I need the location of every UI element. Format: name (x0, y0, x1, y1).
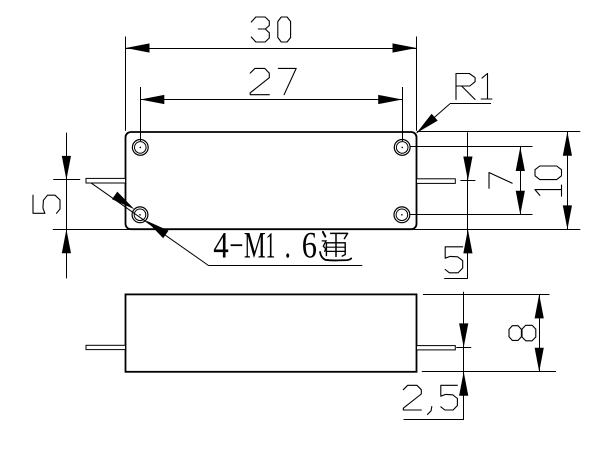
svg-text:6: 6 (302, 226, 317, 267)
label tong (CJK through) glyph (320, 232, 351, 261)
dim 10 text (535, 166, 562, 196)
dim 8 line and arrows (535, 294, 544, 371)
label 4-M1.6 text (213, 226, 317, 267)
dim 27 text (250, 68, 296, 94)
right lead (top view) (417, 179, 456, 184)
left lead (top view) (86, 178, 126, 183)
hole top-left (132, 140, 148, 156)
dim 5 right text (445, 247, 463, 273)
top view body outline (126, 132, 417, 229)
dim 27 line and arrows (140, 95, 402, 104)
left lead (side view) (86, 345, 126, 349)
dim 7 text (489, 173, 512, 189)
dim 30 text (251, 17, 290, 42)
dim 2.5 line, arrows and ticks (404, 292, 472, 420)
dim 30 extension lines (126, 37, 417, 131)
svg-text:4: 4 (213, 226, 229, 267)
dim 5 left text (33, 195, 60, 213)
hole bottom-right (394, 207, 410, 223)
dim 27 extension lines (141, 87, 403, 141)
svg-text:M: M (244, 226, 266, 267)
label R1 text (456, 74, 492, 100)
side view body outline (126, 294, 417, 371)
dim 10 extension lines (126, 132, 581, 230)
dim 2.5 text (403, 385, 457, 414)
hole bottom-left (132, 207, 148, 223)
dim 8 extension lines (422, 295, 556, 372)
dim 30 line and arrows (126, 43, 417, 52)
svg-text:.: . (285, 226, 291, 267)
dim 10 line and arrows (563, 132, 572, 230)
dim 7 extension lines (410, 147, 532, 215)
hole top-right (394, 140, 410, 156)
dim 5 right line, arrows and ticks (444, 132, 475, 278)
dim 8 text (509, 325, 536, 341)
leader 4-M1.6 line (91, 183, 362, 265)
dim 5 left line, arrows and ticks (53, 133, 80, 279)
dim 5 left extension line (53, 229, 126, 231)
dim 7 line and arrows (516, 147, 525, 215)
right lead (side view) (417, 346, 456, 350)
svg-text:1: 1 (266, 226, 276, 267)
leader R1 (417, 104, 491, 134)
